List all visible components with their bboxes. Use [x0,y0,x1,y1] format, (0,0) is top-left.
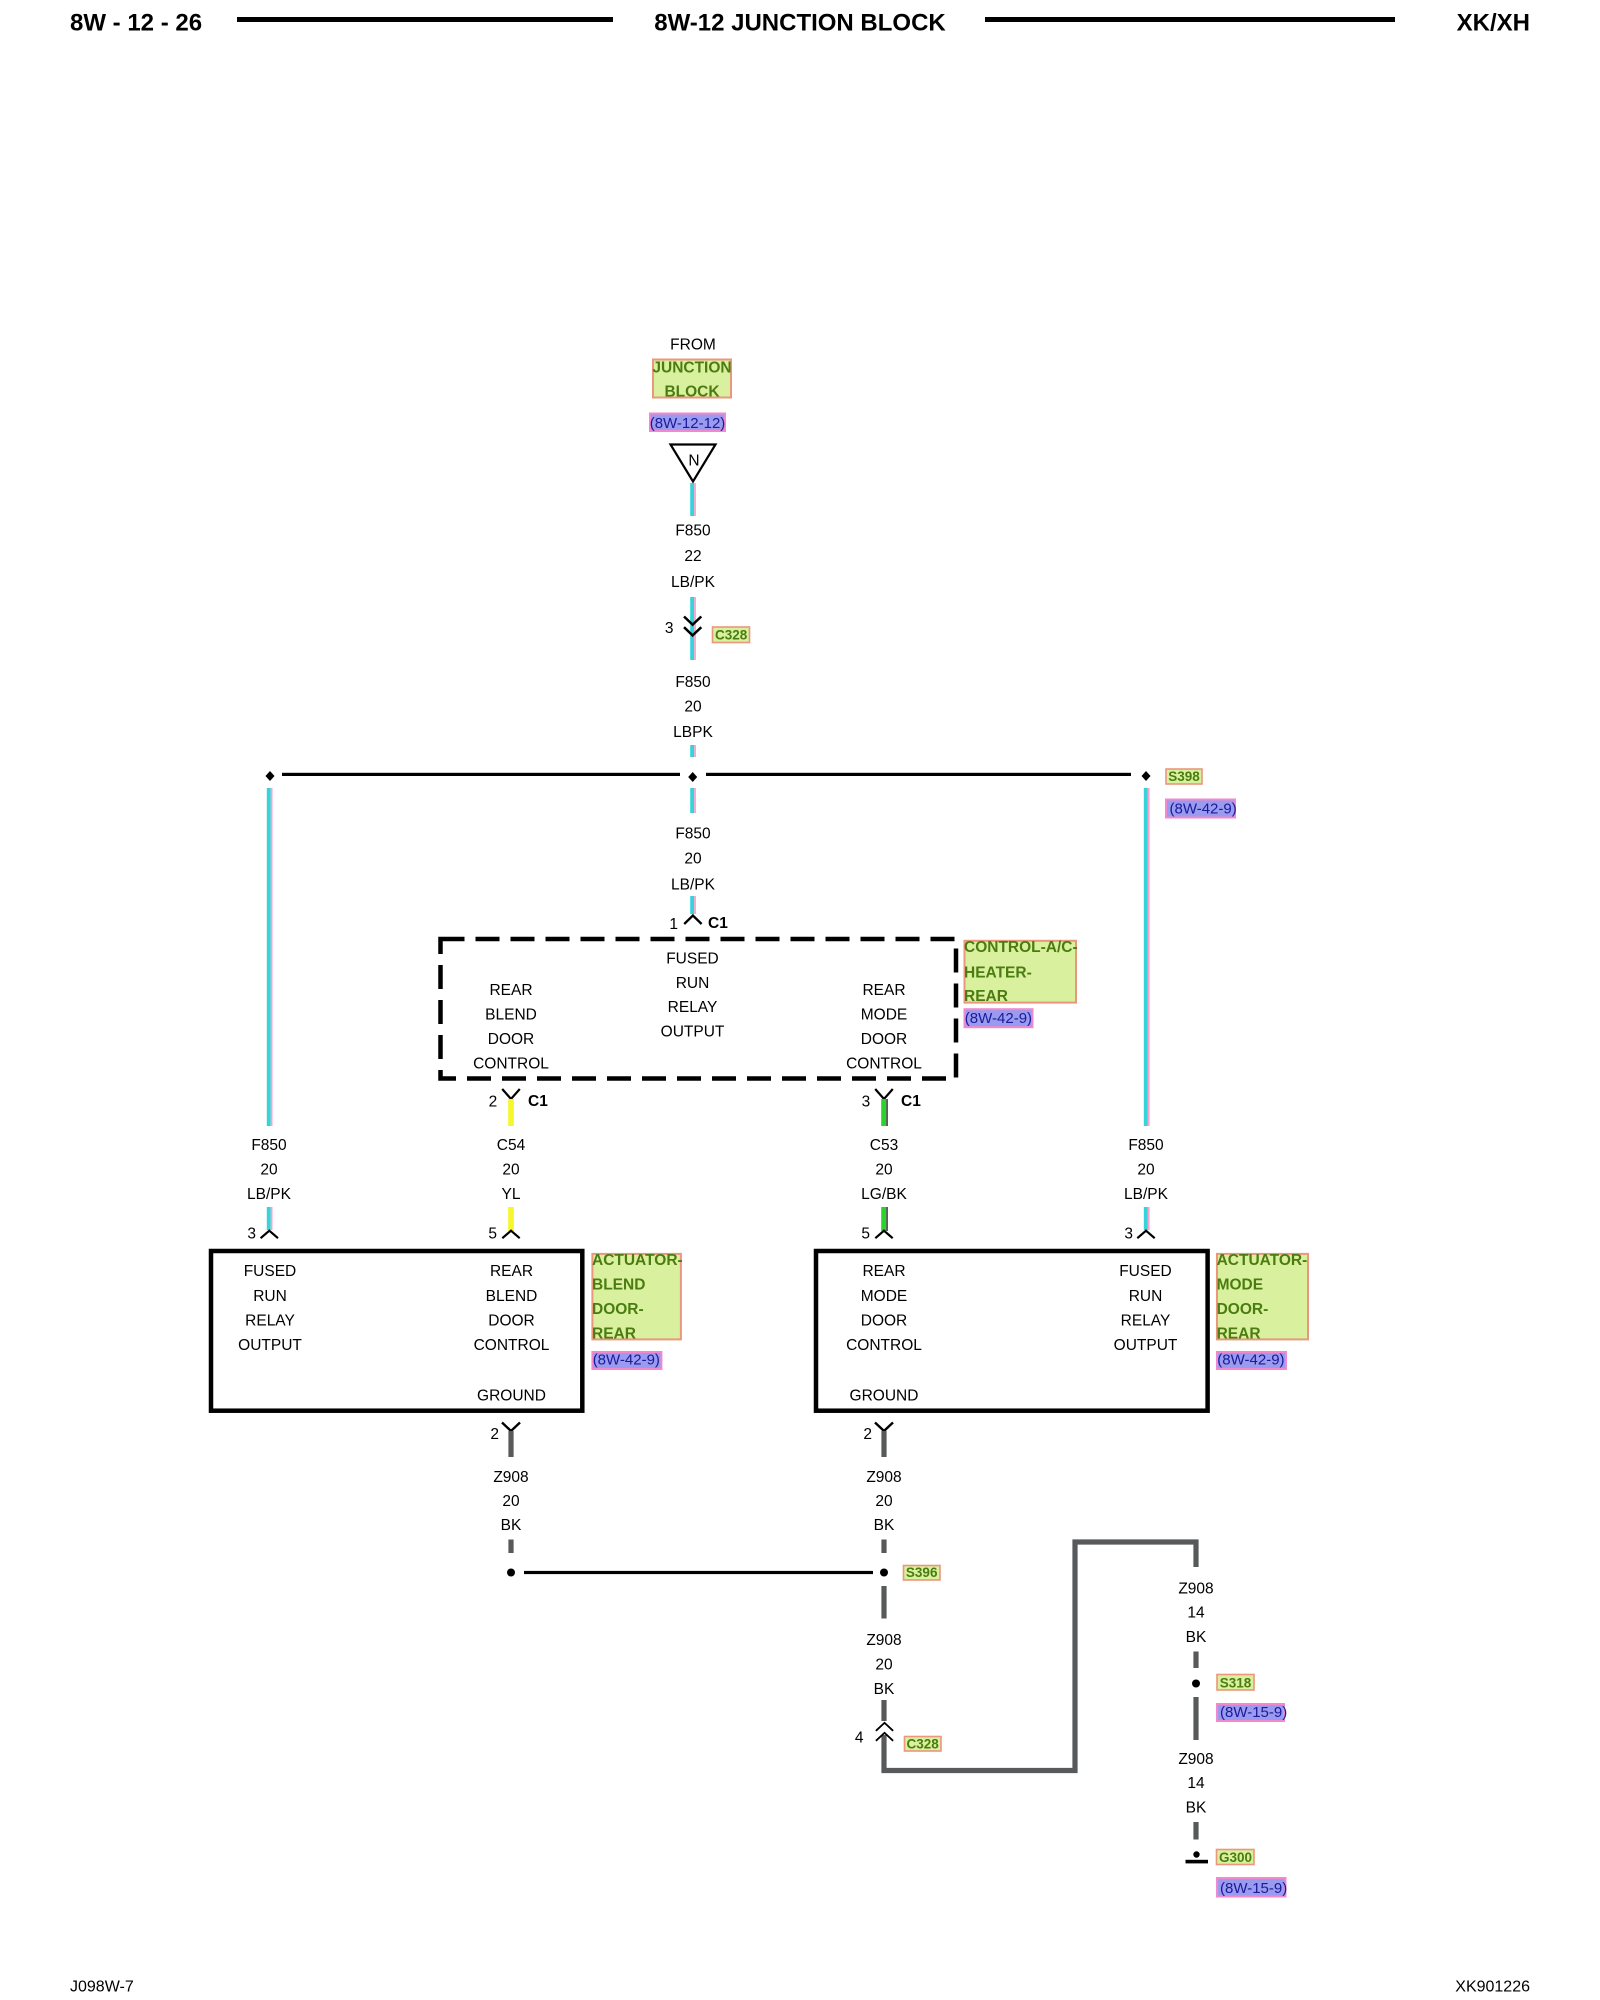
svg-text:8W - 12 - 26: 8W - 12 - 26 [70,10,202,37]
svg-text:F850: F850 [251,1137,287,1154]
svg-text:CONTROL-A/C-: CONTROL-A/C- [964,939,1078,956]
svg-text:C53: C53 [870,1137,898,1154]
svg-text:(8W-42-9): (8W-42-9) [1170,801,1237,818]
svg-text:5: 5 [861,1226,870,1243]
svg-text:FROM: FROM [670,337,716,354]
svg-text:4: 4 [855,1730,864,1747]
svg-text:YL: YL [502,1186,521,1203]
svg-text:22: 22 [684,548,701,565]
svg-text:RELAY: RELAY [1121,1313,1171,1330]
svg-text:HEATER-: HEATER- [964,965,1032,982]
svg-text:LBPK: LBPK [673,724,713,741]
svg-text:REAR: REAR [1217,1326,1261,1343]
svg-text:20: 20 [260,1162,278,1179]
svg-text:20: 20 [684,851,702,868]
svg-text:MODE: MODE [861,1288,908,1305]
svg-text:BK: BK [1186,1629,1207,1646]
svg-text:(8W-12-12): (8W-12-12) [650,415,726,432]
svg-text:XK/XH: XK/XH [1457,10,1530,37]
svg-text:REAR: REAR [862,1263,905,1280]
svg-text:RUN: RUN [676,975,710,992]
svg-text:5: 5 [488,1226,497,1243]
svg-text:1: 1 [669,916,678,933]
svg-text:Z908: Z908 [866,1469,901,1486]
svg-text:REAR: REAR [489,982,532,999]
svg-text:20: 20 [875,1162,893,1179]
svg-text:DOOR-: DOOR- [1217,1301,1269,1318]
svg-text:DOOR: DOOR [861,1313,908,1330]
svg-text:F850: F850 [675,674,711,691]
svg-text:20: 20 [684,699,702,716]
svg-text:Z908: Z908 [1178,1581,1213,1598]
svg-text:(8W-42-9): (8W-42-9) [593,1352,660,1369]
svg-text:S318: S318 [1220,1676,1252,1691]
svg-text:J098W-7: J098W-7 [70,1979,134,1996]
svg-text:C1: C1 [708,915,728,932]
svg-text:RUN: RUN [1129,1288,1163,1305]
svg-text:C328: C328 [907,1737,940,1752]
svg-text:20: 20 [875,1493,893,1510]
svg-text:LB/PK: LB/PK [671,877,716,894]
svg-text:20: 20 [502,1162,520,1179]
svg-text:8W-12 JUNCTION BLOCK: 8W-12 JUNCTION BLOCK [654,10,946,37]
svg-text:Z908: Z908 [493,1469,528,1486]
svg-text:BK: BK [874,1517,895,1534]
svg-text:BK: BK [1186,1800,1207,1817]
svg-text:BLEND: BLEND [592,1277,645,1294]
svg-text:DOOR: DOOR [861,1031,908,1048]
svg-text:BK: BK [874,1681,895,1698]
svg-text:JUNCTION: JUNCTION [652,360,731,377]
svg-text:Z908: Z908 [1178,1751,1213,1768]
svg-text:LB/PK: LB/PK [247,1186,292,1203]
svg-text:OUTPUT: OUTPUT [1114,1337,1178,1354]
svg-text:LB/PK: LB/PK [1124,1186,1169,1203]
svg-text:14: 14 [1187,1775,1205,1792]
svg-text:C328: C328 [715,628,748,643]
svg-text:REAR: REAR [862,982,905,999]
svg-text:F850: F850 [675,523,711,540]
svg-text:LB/PK: LB/PK [671,574,716,591]
svg-text:BLOCK: BLOCK [664,383,720,400]
svg-text:Z908: Z908 [866,1632,901,1649]
svg-text:3: 3 [862,1094,871,1111]
svg-text:F850: F850 [675,826,711,843]
svg-text:20: 20 [1137,1162,1155,1179]
svg-text:RUN: RUN [253,1288,287,1305]
svg-text:FUSED: FUSED [1119,1263,1172,1280]
svg-text:FUSED: FUSED [244,1263,297,1280]
svg-text:BK: BK [501,1517,522,1534]
svg-text:2: 2 [490,1426,499,1443]
svg-text:MODE: MODE [861,1007,908,1024]
svg-text:F850: F850 [1128,1137,1164,1154]
svg-text:BLEND: BLEND [485,1007,537,1024]
svg-text:BLEND: BLEND [486,1288,538,1305]
svg-text:XK901226: XK901226 [1455,1979,1530,1996]
svg-text:CONTROL: CONTROL [473,1056,549,1073]
svg-text:S398: S398 [1168,769,1200,784]
svg-text:REAR: REAR [490,1263,533,1280]
svg-text:DOOR-: DOOR- [592,1301,644,1318]
svg-text:GROUND: GROUND [850,1388,919,1405]
svg-text:(8W-42-9): (8W-42-9) [965,1010,1032,1027]
svg-text:C54: C54 [497,1137,526,1154]
svg-text:20: 20 [875,1657,893,1674]
svg-text:N: N [688,453,699,470]
svg-text:CONTROL: CONTROL [846,1056,922,1073]
svg-text:RELAY: RELAY [668,999,718,1016]
svg-text:20: 20 [502,1493,520,1510]
svg-text:14: 14 [1187,1605,1205,1622]
svg-text:(8W-15-9): (8W-15-9) [1220,1880,1287,1897]
svg-text:OUTPUT: OUTPUT [661,1023,725,1040]
svg-text:3: 3 [1124,1226,1133,1243]
svg-text:REAR: REAR [592,1326,636,1343]
svg-text:C1: C1 [528,1093,548,1110]
svg-text:OUTPUT: OUTPUT [238,1337,302,1354]
svg-text:(8W-15-9): (8W-15-9) [1220,1704,1287,1721]
svg-text:CONTROL: CONTROL [474,1337,550,1354]
svg-text:GROUND: GROUND [477,1388,546,1405]
svg-text:LG/BK: LG/BK [861,1186,907,1203]
svg-text:(8W-42-9): (8W-42-9) [1217,1352,1284,1369]
svg-text:DOOR: DOOR [488,1313,535,1330]
svg-text:2: 2 [863,1426,872,1443]
svg-text:RELAY: RELAY [245,1313,295,1330]
svg-text:CONTROL: CONTROL [846,1337,922,1354]
svg-text:ACTUATOR-: ACTUATOR- [1217,1252,1308,1269]
svg-text:MODE: MODE [1217,1277,1264,1294]
svg-text:3: 3 [247,1226,256,1243]
svg-text:3: 3 [665,620,674,637]
svg-text:DOOR: DOOR [488,1031,535,1048]
svg-text:2: 2 [489,1094,498,1111]
svg-text:ACTUATOR-: ACTUATOR- [592,1252,683,1269]
svg-text:S396: S396 [906,1565,938,1580]
svg-text:C1: C1 [901,1093,921,1110]
svg-text:FUSED: FUSED [666,951,719,968]
svg-text:G300: G300 [1219,1850,1252,1865]
svg-text:REAR: REAR [964,988,1008,1005]
